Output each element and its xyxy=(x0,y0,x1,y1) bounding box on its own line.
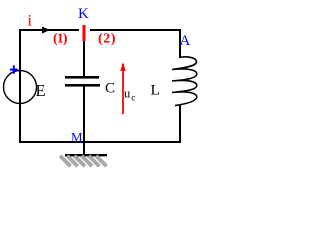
voltage arrow uc head xyxy=(120,62,125,71)
svg-text:C: C xyxy=(105,81,115,97)
voltage arrow uc xyxy=(122,64,124,114)
wire: right vertical upper xyxy=(179,29,181,58)
wire: bottom segment xyxy=(19,141,181,143)
capacitor C bottom plate xyxy=(65,84,100,87)
svg-text:E: E xyxy=(36,81,46,100)
inductor L coil xyxy=(172,57,197,106)
wire: top-right segment (2) side xyxy=(90,29,181,31)
svg-text:i: i xyxy=(28,13,33,30)
wire: capacitor to bottom node M xyxy=(83,86,85,141)
label + polarity xyxy=(10,65,18,73)
ground hatching xyxy=(60,156,107,167)
wire: right vertical lower xyxy=(179,105,181,143)
current arrow on top wire xyxy=(43,27,49,32)
svg-text:u: u xyxy=(124,86,131,100)
switch K blade xyxy=(83,25,86,41)
svg-text:A: A xyxy=(180,33,191,49)
voltage source E xyxy=(4,71,37,104)
svg-text:c: c xyxy=(131,94,135,104)
capacitor C top plate xyxy=(65,76,99,79)
ground bar xyxy=(65,154,107,156)
svg-text:K: K xyxy=(78,6,89,22)
wire: top-left segment (1) side xyxy=(19,29,79,31)
wire: node M stub to ground xyxy=(83,143,85,155)
svg-text:M: M xyxy=(71,130,83,145)
wire: left vertical branch xyxy=(19,29,21,142)
svg-text:(2): (2) xyxy=(98,32,116,47)
svg-text:L: L xyxy=(151,83,161,99)
svg-text:(1): (1) xyxy=(53,32,68,47)
wire: switch pole down to capacitor xyxy=(83,40,85,76)
